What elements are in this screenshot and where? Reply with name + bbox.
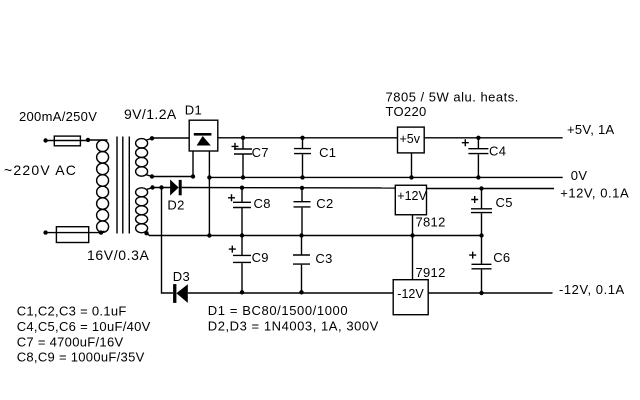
wire input top to fuse	[46, 140, 88, 142]
label +5V, 1A	[567, 122, 615, 137]
node 9V top terminal	[150, 136, 154, 140]
node C1 bottom	[300, 175, 304, 179]
wire input bottom through fuse	[46, 232, 101, 234]
node C5 top	[479, 186, 483, 190]
node D3 branch junction	[159, 185, 163, 189]
transformer T1 primary winding	[97, 140, 109, 233]
node fuse top right	[86, 138, 90, 142]
svg-text:C8: C8	[254, 196, 271, 211]
svg-text:200mA/250V: 200mA/250V	[19, 109, 97, 124]
transformer secondary 16V winding	[136, 188, 153, 234]
transformer secondary 9V winding	[136, 138, 152, 176]
node D1 minus lower junction	[207, 233, 211, 237]
diode D2	[170, 180, 182, 196]
node C6 bottom	[479, 291, 483, 295]
label C5	[496, 195, 513, 210]
svg-text:-12V, 0.1A: -12V, 0.1A	[559, 282, 625, 297]
wire fuse to transformer primary top	[88, 139, 108, 141]
svg-text:C4,C5,C6 = 10uF/40V: C4,C5,C6 = 10uF/40V	[17, 319, 151, 334]
label C5 plus	[471, 196, 478, 203]
node C7 bottom	[241, 175, 245, 179]
label C8 plus	[228, 194, 235, 201]
wire +12V output rail	[427, 188, 555, 190]
node 16V top terminal	[150, 185, 154, 189]
label C4,C5,C6 = 10uF/40V	[17, 319, 151, 334]
node D1 AC2 junction	[191, 174, 195, 178]
node C9 top junction	[240, 233, 244, 237]
wire 9V top to D1	[152, 137, 189, 139]
capacitor C2	[294, 188, 311, 236]
node C3 top junction	[299, 233, 303, 237]
svg-text:C4: C4	[489, 144, 506, 159]
node 9V bottom terminal	[150, 174, 154, 178]
regulator U3 7912 box	[393, 280, 428, 315]
node C4 bottom	[476, 175, 480, 179]
svg-text:C7: C7	[252, 145, 269, 160]
label +5v	[400, 132, 421, 146]
svg-text:7812: 7812	[416, 215, 446, 230]
label C7 plus	[232, 143, 239, 150]
svg-text:7805 / 5W alu. heats.: 7805 / 5W alu. heats.	[386, 90, 519, 105]
wire 7812 ground pin	[412, 215, 414, 280]
svg-text:9V/1.2A: 9V/1.2A	[124, 106, 177, 122]
svg-text:D2: D2	[167, 198, 184, 213]
node 7805 ground junction	[409, 175, 413, 179]
label 7805 / 5W alu. heats.	[386, 90, 519, 105]
node C4 top	[476, 136, 480, 140]
label C9 plus	[229, 246, 236, 253]
wire +5V output rail	[424, 137, 563, 139]
svg-text:D1 = BC80/1500/1000: D1 = BC80/1500/1000	[208, 303, 348, 318]
label C2	[316, 196, 333, 211]
label ~220V AC	[4, 162, 77, 178]
svg-text:D1: D1	[185, 103, 202, 118]
node C7 top	[241, 136, 245, 140]
label TO220	[386, 104, 427, 119]
svg-text:C1: C1	[319, 145, 336, 160]
label D2,D3 = 1N4003, 1A, 300V	[208, 318, 379, 333]
label D1 = BC80/1500/1000	[208, 303, 348, 318]
capacitor C8	[233, 188, 251, 236]
regulator U2 7812 box	[395, 185, 426, 215]
label C9	[252, 250, 269, 265]
wire 0V lower rail	[147, 233, 484, 235]
label C3	[315, 251, 332, 266]
svg-text:C6: C6	[493, 250, 510, 265]
svg-text:TO220: TO220	[386, 104, 427, 119]
capacitor C7	[234, 138, 252, 178]
node 16V bottom terminal	[144, 231, 148, 235]
node C1 top	[300, 136, 304, 140]
label 200mA/250V	[19, 109, 97, 124]
svg-text:~220V AC: ~220V AC	[4, 162, 77, 178]
regulator U1 7805 box	[398, 127, 425, 153]
fuse F2	[56, 227, 88, 243]
label C8,C9 = 1000uF/35V	[17, 350, 145, 365]
node C2 top	[300, 186, 304, 190]
label C1,C2,C3 = 0.1uF	[17, 304, 127, 319]
wire 0V rail	[209, 176, 562, 178]
svg-text:+12V, 0.1A: +12V, 0.1A	[560, 186, 629, 201]
node fuse bottom right / primary bottom	[99, 230, 103, 234]
diode D3	[173, 284, 188, 303]
label 7912	[416, 265, 446, 280]
label 9V/1.2A	[124, 106, 177, 122]
capacitor C5	[471, 189, 492, 236]
label 0V	[571, 168, 588, 183]
wire D1 AC2 pin down	[192, 151, 194, 177]
bridge rectifier D1 symbol	[194, 133, 212, 146]
svg-text:C1,C2,C3 = 0.1uF: C1,C2,C3 = 0.1uF	[17, 304, 127, 319]
label C7 = 4700uF/16V	[17, 334, 124, 349]
label C6 plus	[469, 252, 476, 259]
label C6	[493, 250, 510, 265]
capacitor C4	[468, 138, 488, 178]
svg-text:+12V: +12V	[397, 189, 427, 203]
svg-text:C2: C2	[316, 196, 333, 211]
label C4 plus	[462, 139, 469, 146]
label C8	[254, 196, 271, 211]
wire D3 branch vertical	[162, 188, 174, 294]
svg-text:+5V, 1A: +5V, 1A	[567, 122, 615, 137]
label D2	[167, 198, 184, 213]
node C5 bottom	[479, 233, 483, 237]
label 16V/0.3A	[87, 247, 149, 263]
transformer core	[117, 137, 129, 234]
wire D1 minus pin down to 0V	[208, 151, 210, 236]
capacitor C6	[472, 236, 492, 294]
wire -12V unregulated rail	[188, 292, 393, 294]
label 7812	[416, 215, 446, 230]
label +12V, 0.1A	[560, 186, 629, 201]
svg-text:C7 = 4700uF/16V: C7 = 4700uF/16V	[17, 334, 124, 349]
label D1	[185, 103, 202, 118]
label C7	[252, 145, 269, 160]
capacitor C1	[294, 138, 311, 178]
wire 9V bottom to D1 pin	[152, 176, 193, 178]
label D3	[173, 269, 190, 284]
svg-text:C3: C3	[315, 251, 332, 266]
label C1	[319, 145, 336, 160]
node C9 bottom	[240, 290, 244, 294]
svg-text:C5: C5	[496, 195, 513, 210]
capacitor C9	[233, 236, 251, 293]
svg-text:C8,C9 = 1000uF/35V: C8,C9 = 1000uF/35V	[17, 350, 145, 365]
node input terminal top	[43, 138, 47, 142]
svg-text:-12V: -12V	[397, 287, 424, 301]
wire +12V unregulated rail	[182, 187, 396, 190]
wire 16V top to D2	[153, 187, 171, 189]
node C8 top	[240, 186, 244, 190]
wire -12V output rail	[428, 292, 552, 294]
svg-text:7912: 7912	[416, 265, 446, 280]
svg-text:D2,D3 = 1N4003, 1A, 300V: D2,D3 = 1N4003, 1A, 300V	[208, 318, 379, 333]
capacitor C3	[293, 236, 310, 293]
svg-text:16V/0.3A: 16V/0.3A	[87, 247, 149, 263]
label -12V, 0.1A	[559, 282, 625, 297]
wire 7805 ground pin	[411, 153, 413, 178]
node C3 bottom	[299, 290, 303, 294]
svg-text:D3: D3	[173, 269, 190, 284]
fuse F1 200mA/250V	[54, 136, 80, 146]
node D1 minus / 0V rail start	[207, 175, 211, 179]
label +12V	[397, 189, 427, 203]
node 7812 ground junction	[410, 233, 414, 237]
node input terminal bottom	[43, 230, 47, 234]
label C4	[489, 144, 506, 159]
svg-text:0V: 0V	[571, 168, 588, 183]
wire +5V unregulated rail	[218, 137, 398, 139]
svg-text:C9: C9	[252, 250, 269, 265]
svg-text:+5v: +5v	[400, 132, 421, 146]
bridge rectifier D1 box	[189, 120, 218, 151]
label -12V	[397, 287, 424, 301]
